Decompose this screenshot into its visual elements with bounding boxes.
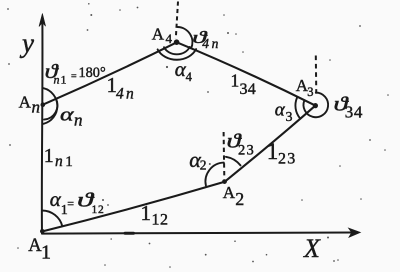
svg-text:4n: 4n xyxy=(116,86,136,103)
svg-text:180°: 180° xyxy=(79,65,106,81)
svg-text:1: 1 xyxy=(267,139,279,164)
svg-text:3: 3 xyxy=(286,110,293,125)
svg-text:2: 2 xyxy=(235,189,244,209)
svg-text:23: 23 xyxy=(278,151,296,168)
svg-text:=: = xyxy=(67,197,74,211)
svg-text:34: 34 xyxy=(345,103,363,122)
svg-text:4n: 4n xyxy=(202,36,221,51)
svg-text:4: 4 xyxy=(166,31,173,46)
svg-text:α: α xyxy=(275,100,286,121)
svg-text:2: 2 xyxy=(200,158,207,173)
svg-text:1: 1 xyxy=(41,242,51,264)
svg-text:1: 1 xyxy=(231,71,240,91)
svg-text:12: 12 xyxy=(92,204,105,216)
svg-text:A: A xyxy=(19,92,32,111)
svg-text:n: n xyxy=(32,98,41,117)
svg-text:1: 1 xyxy=(61,73,67,87)
svg-text:A: A xyxy=(152,25,165,44)
svg-text:X: X xyxy=(303,234,321,263)
svg-text:12: 12 xyxy=(152,212,169,229)
svg-text:y: y xyxy=(19,28,34,58)
svg-text:4: 4 xyxy=(186,70,193,84)
svg-text:1: 1 xyxy=(141,201,152,225)
svg-text:34: 34 xyxy=(240,81,257,98)
svg-text:3: 3 xyxy=(307,85,313,99)
svg-text:n: n xyxy=(74,111,83,130)
svg-text:n: n xyxy=(55,153,63,170)
svg-text:1: 1 xyxy=(44,145,54,167)
svg-text:A: A xyxy=(223,183,236,202)
svg-text:23: 23 xyxy=(238,142,255,158)
svg-text:1: 1 xyxy=(65,154,73,170)
svg-text:α: α xyxy=(60,104,75,125)
svg-text:=: = xyxy=(71,72,77,83)
svg-text:n: n xyxy=(54,73,60,87)
